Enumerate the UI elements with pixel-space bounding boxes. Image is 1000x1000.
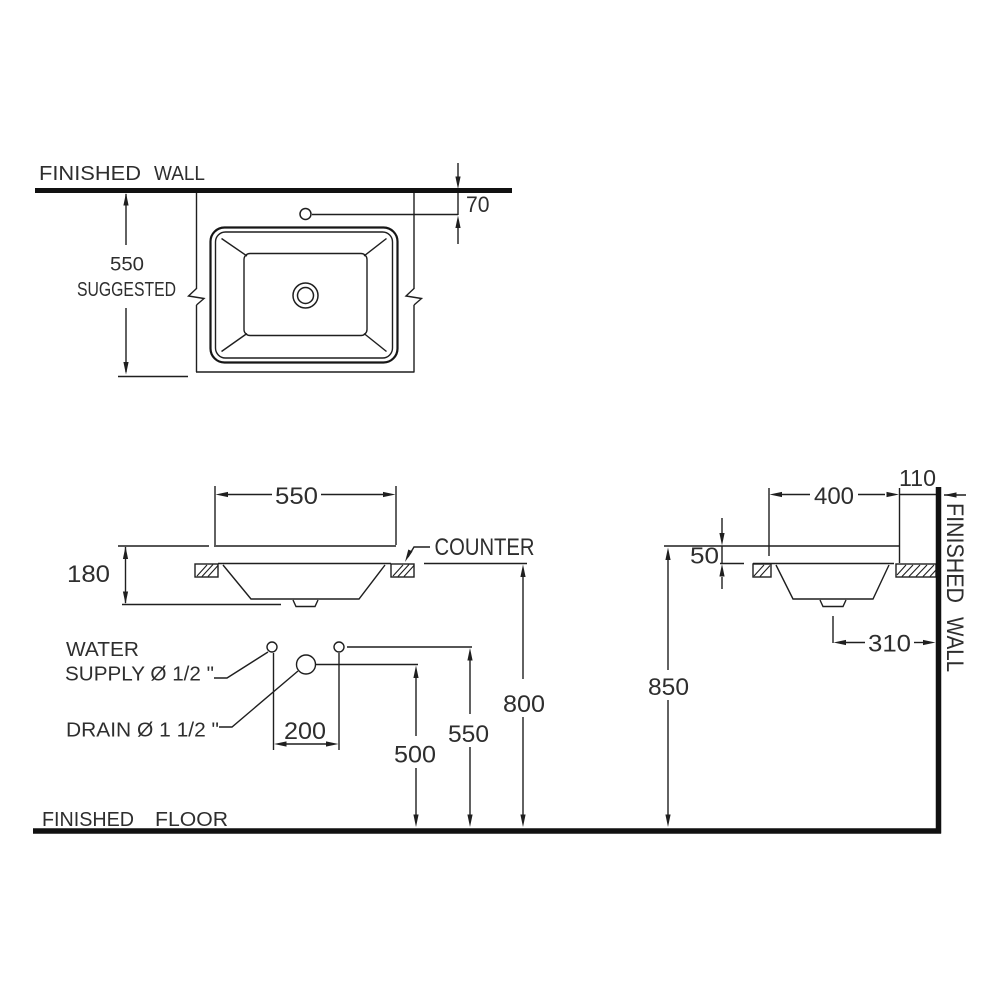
label WATER SUPPLY xyxy=(65,639,214,686)
dimension 400 line and arrows xyxy=(781,494,936,496)
drain stub (front) xyxy=(293,600,318,607)
svg-text:850: 850 xyxy=(648,674,689,701)
sink plan corner diagonals xyxy=(222,239,387,352)
dimension 850 line and arrows xyxy=(667,560,669,815)
wall line (top, thick) xyxy=(35,188,512,193)
dimension 550 (front) extension lines xyxy=(215,486,396,545)
dimension 550 (floor) line and arrows xyxy=(469,660,471,815)
drain (plan) inner circle xyxy=(298,288,314,304)
dimension 310 line and arrows xyxy=(845,642,924,644)
svg-text:WALL: WALL xyxy=(154,163,205,185)
dimension 500 top extension line xyxy=(315,664,418,666)
svg-text:550: 550 xyxy=(110,254,144,276)
counter hatch block right (side) xyxy=(896,564,936,577)
svg-text:550: 550 xyxy=(275,483,318,510)
svg-text:400: 400 xyxy=(814,483,854,510)
sink rim bottom line (side) xyxy=(753,563,894,565)
counter left edge with break xyxy=(189,193,205,372)
dimension 50 bottom extension line xyxy=(720,563,744,565)
svg-text:FLOOR: FLOOR xyxy=(155,809,228,831)
drain hole circle (front) xyxy=(297,655,316,674)
svg-text:DRAIN Ø 1 1/2 ": DRAIN Ø 1 1/2 " xyxy=(66,720,219,742)
dimension 400 extension lines xyxy=(769,488,900,563)
faucet hole circle (plan) xyxy=(300,209,311,220)
svg-text:110: 110 xyxy=(899,465,936,491)
water supply hole right circle xyxy=(334,642,344,652)
svg-text:FINISHED: FINISHED xyxy=(39,163,141,185)
svg-text:70: 70 xyxy=(466,192,490,217)
counter hatch block left (side) xyxy=(753,564,771,577)
svg-text:SUGGESTED: SUGGESTED xyxy=(77,278,176,301)
counter hatch block left (front) xyxy=(195,564,218,577)
dimension 850 top extension line / sink rim top (side) xyxy=(664,545,900,547)
sink plan basin rect xyxy=(244,254,367,336)
counter bottom edge (plan) xyxy=(196,371,415,373)
dimension 180 top extension line xyxy=(118,545,209,547)
svg-text:500: 500 xyxy=(394,742,436,769)
svg-text:800: 800 xyxy=(503,691,545,718)
water supply hole left circle xyxy=(267,642,277,652)
DRAIN leader xyxy=(219,671,298,727)
dimension 110 outside arrow at wall xyxy=(944,492,966,497)
dimension 500 line and arrows xyxy=(415,678,417,815)
wall line (right, thick vertical) xyxy=(936,487,942,834)
svg-text:COUNTER: COUNTER xyxy=(435,534,535,561)
svg-text:550: 550 xyxy=(448,721,489,748)
drain stub (side) xyxy=(820,600,846,607)
svg-text:180: 180 xyxy=(67,561,110,588)
drain (plan) outer circle xyxy=(293,283,318,308)
label FINISHED WALL (top) xyxy=(39,163,205,185)
COUNTER leader line and arrow xyxy=(405,547,430,562)
svg-text:SUPPLY Ø 1/2 ": SUPPLY Ø 1/2 " xyxy=(65,664,214,686)
dimension 200 extension lines xyxy=(274,653,340,750)
sink plan inner rim xyxy=(216,232,393,358)
svg-text:WATER: WATER xyxy=(66,639,139,661)
WATER SUPPLY leader xyxy=(214,652,268,678)
dimension 180 line and arrows xyxy=(125,547,127,603)
dimension 180 bottom extension line xyxy=(122,604,281,606)
counter right edge with break xyxy=(406,193,422,372)
dimension 50 line through rim xyxy=(721,546,723,564)
dimension 550 (floor) top extension line xyxy=(347,646,472,648)
sink front rim bottom line xyxy=(218,563,391,565)
dimension 70 bottom arrow xyxy=(455,216,460,245)
dimension 800 line and arrows xyxy=(522,577,524,815)
svg-text:310: 310 xyxy=(868,631,911,658)
dimension 550 SUGGESTED extension line (bottom) xyxy=(118,376,188,378)
sink plan outer rim xyxy=(211,228,398,363)
basin profile (side) xyxy=(776,565,889,599)
sink front rim top line xyxy=(214,545,396,547)
counter hatch block right (front) xyxy=(391,564,414,577)
dimension 800 top extension line (counter level) xyxy=(424,563,527,565)
dimension 550 (front) line and arrows xyxy=(227,494,385,496)
floor line (thick) xyxy=(33,828,941,834)
dimension 550 SUGGESTED arrows xyxy=(123,193,128,375)
svg-text:FINISHED: FINISHED xyxy=(42,809,134,831)
dimension 70 extension line xyxy=(457,193,459,215)
basin profile (front) xyxy=(223,565,385,599)
drain reference line (side) xyxy=(832,616,834,643)
dimension 50 arrows xyxy=(719,518,724,589)
svg-text:FINISHED: FINISHED xyxy=(941,503,968,603)
dimension 70 top arrow xyxy=(455,163,460,189)
label FINISHED WALL (right, rotated) xyxy=(941,503,968,672)
faucet hole reference line xyxy=(312,214,458,216)
dimension 200 line and arrows xyxy=(286,743,327,745)
dimension 550 SUGGESTED vertical line xyxy=(125,194,127,372)
label FINISHED FLOOR xyxy=(42,809,228,831)
svg-text:WALL: WALL xyxy=(941,617,968,672)
svg-text:200: 200 xyxy=(284,718,326,745)
